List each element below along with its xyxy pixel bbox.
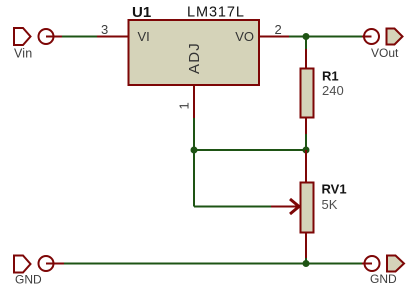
svg-text:ADJ: ADJ	[186, 42, 203, 74]
pin RV1 top	[305, 150, 307, 183]
svg-text:VO: VO	[235, 29, 254, 44]
pin VO	[259, 36, 290, 38]
pin ADJ	[193, 85, 195, 118]
svg-text:5K: 5K	[322, 197, 338, 212]
svg-text:VI: VI	[138, 29, 150, 44]
svg-text:GND: GND	[15, 273, 42, 287]
svg-text:1: 1	[177, 102, 192, 109]
junction node A	[191, 147, 198, 154]
resistor R1	[301, 48, 344, 134]
terminal Vin	[14, 28, 62, 61]
wiper arrow line	[271, 206, 298, 208]
potentiometer RV1	[271, 150, 347, 259]
wire Vin to U1 pin VI	[62, 36, 98, 38]
terminal GND right	[362, 256, 404, 287]
body RV1	[301, 183, 314, 233]
junction node C	[303, 33, 310, 40]
svg-text:GND: GND	[370, 272, 397, 286]
wire RV1 bottom to ground rail	[305, 258, 307, 264]
svg-text:Vin: Vin	[14, 47, 32, 61]
body R1	[301, 69, 314, 118]
wire node B up to R1	[305, 134, 307, 150]
wire node A to node B	[194, 149, 306, 151]
svg-text:240: 240	[322, 83, 344, 98]
svg-text:U1: U1	[132, 4, 151, 21]
junction node B	[303, 147, 310, 154]
wire wiper corner to RV1 wiper	[194, 206, 272, 208]
wire node C down to R1	[305, 37, 307, 50]
terminal VOut	[362, 29, 403, 61]
pin RV1 bottom	[305, 232, 307, 259]
body U1	[129, 20, 260, 85]
wire ground rail	[63, 263, 362, 265]
pin R1 bottom	[305, 117, 307, 134]
svg-text:3: 3	[101, 22, 108, 37]
terminal GND left	[14, 256, 64, 287]
junction node D	[303, 260, 310, 267]
wire node A down to wiper corner	[193, 150, 195, 207]
wiper arrowhead	[290, 199, 299, 214]
wire U1 VO to VOut	[289, 36, 363, 38]
pin R1 top	[305, 48, 307, 69]
svg-text:LM317L: LM317L	[187, 5, 245, 21]
svg-text:2: 2	[275, 22, 282, 37]
pin VI	[97, 36, 128, 38]
svg-text:R1: R1	[322, 69, 339, 84]
svg-text:RV1: RV1	[322, 182, 347, 197]
regulator U1 LM317L	[97, 4, 290, 118]
wire U1 ADJ down to node A	[193, 118, 195, 150]
svg-text:VOut: VOut	[371, 46, 399, 60]
